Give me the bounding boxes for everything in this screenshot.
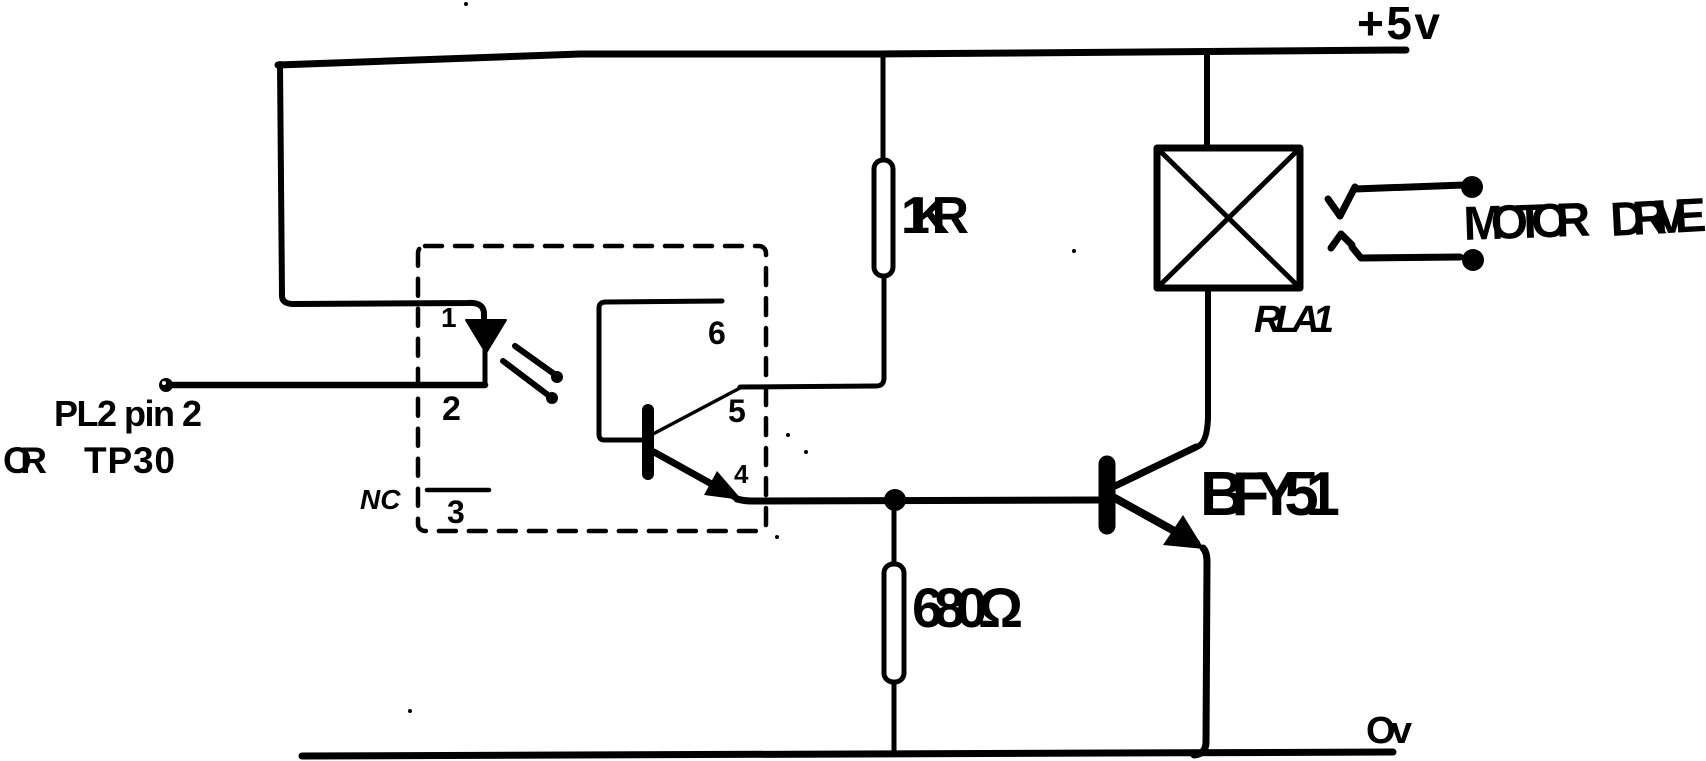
- +5V rail: [278, 50, 1406, 65]
- svg-text:6: 6: [708, 315, 726, 351]
- svg-text:NC: NC: [360, 484, 401, 515]
- wire: relay coil to Q1 collector: [1196, 289, 1208, 447]
- svg-text:2: 2: [442, 390, 461, 428]
- svg-text:DRIVE: DRIVE: [1609, 189, 1706, 247]
- pin 3 stub: [427, 488, 489, 493]
- svg-text:680Ω: 680Ω: [912, 576, 1023, 639]
- wire: +5V rail down-left to optocoupler pin 1: [280, 64, 484, 322]
- resistor R1 1KR: [874, 55, 893, 276]
- relay coil RLA1: [1157, 148, 1300, 288]
- svg-text:TP30: TP30: [84, 440, 175, 481]
- phototransistor collector to pin 5: [653, 388, 740, 434]
- node: base junction: [884, 489, 906, 511]
- svg-text:+5v: +5v: [1357, 0, 1440, 49]
- svg-text:MOTOR: MOTOR: [1463, 194, 1592, 251]
- stray ink specks: [408, 2, 1076, 713]
- label OR TP30: [3, 440, 175, 481]
- svg-text:1: 1: [441, 302, 457, 333]
- MOTOR DRIVE label: [1463, 189, 1706, 251]
- svg-text:OR: OR: [3, 440, 47, 481]
- svg-text:BFY51: BFY51: [1200, 460, 1340, 529]
- phototransistor base loop to pin 6: [599, 301, 722, 440]
- wire: pin 5 to R1 bottom: [740, 277, 884, 387]
- phototransistor emitter with arrow (pin 4): [654, 452, 742, 500]
- LED (optocoupler emitter diode): [466, 320, 506, 385]
- svg-text:4: 4: [734, 459, 749, 489]
- input terminal: [159, 378, 173, 392]
- relay contact (bottom): [1331, 234, 1484, 271]
- svg-text:PL2 pin 2: PL2 pin 2: [54, 393, 202, 434]
- wire: +5V rail to relay coil: [1204, 51, 1210, 148]
- phototransistor bar: [642, 410, 654, 474]
- 0V rail: [302, 752, 1393, 756]
- svg-text:RLA1: RLA1: [1254, 299, 1334, 341]
- svg-text:Ov: Ov: [1366, 710, 1412, 752]
- optocoupler dashed outline: [418, 246, 766, 531]
- transistor Q1 BFY51: [1107, 447, 1207, 755]
- svg-text:1KR: 1KR: [901, 187, 969, 245]
- resistor R2 680R: [884, 501, 904, 754]
- svg-text:3: 3: [447, 494, 465, 530]
- wire: terminal to pin 2: [173, 382, 485, 389]
- relay contact (top): [1328, 176, 1483, 216]
- wire: opto emitter to Q1 base: [737, 499, 1098, 501]
- light emission arrows: [503, 346, 563, 404]
- svg-text:5: 5: [728, 393, 746, 429]
